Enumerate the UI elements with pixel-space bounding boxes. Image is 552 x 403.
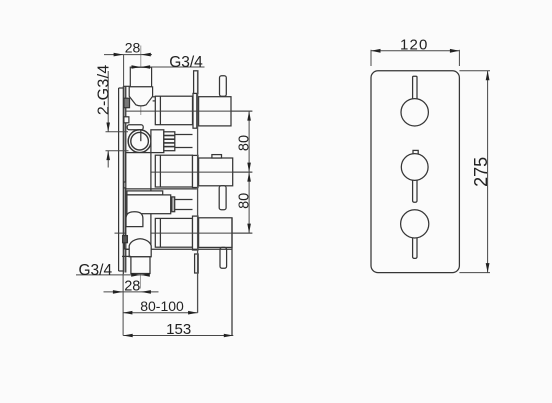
svg-text:28: 28 xyxy=(124,278,140,294)
svg-text:80: 80 xyxy=(237,135,253,151)
svg-text:80-100: 80-100 xyxy=(140,298,184,314)
svg-text:G3/4: G3/4 xyxy=(78,262,112,279)
svg-text:153: 153 xyxy=(166,321,191,338)
svg-text:2-G3/4: 2-G3/4 xyxy=(95,64,112,115)
svg-text:28: 28 xyxy=(125,40,141,56)
svg-text:120: 120 xyxy=(400,37,429,54)
svg-text:275: 275 xyxy=(471,157,491,187)
svg-text:G3/4: G3/4 xyxy=(169,54,203,71)
svg-text:80: 80 xyxy=(237,193,253,209)
